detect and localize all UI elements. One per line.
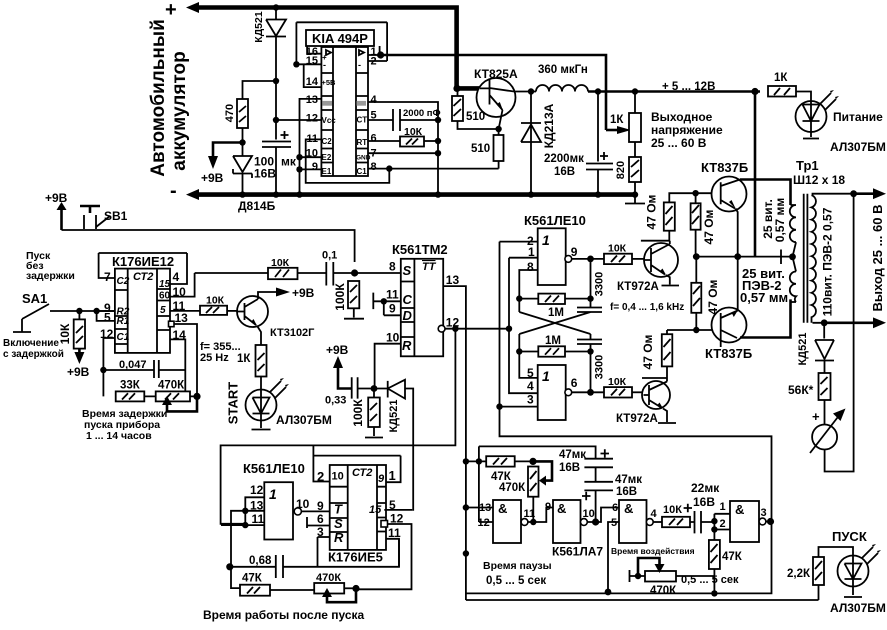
- svg-text:0,33: 0,33: [325, 395, 346, 407]
- svg-text:100К: 100К: [351, 399, 365, 427]
- svg-text:9: 9: [571, 245, 578, 259]
- svg-text:470: 470: [224, 104, 236, 122]
- svg-text:12: 12: [478, 517, 490, 529]
- svg-text:3: 3: [527, 393, 534, 407]
- svg-text:+9В: +9В: [326, 343, 349, 357]
- svg-text:КТ972А: КТ972А: [616, 413, 658, 425]
- svg-text:16В: 16В: [559, 462, 580, 474]
- svg-text:110вит. ПЭВ-2 0,57: 110вит. ПЭВ-2 0,57: [821, 207, 835, 316]
- svg-text:0,5 ... 5 сек: 0,5 ... 5 сек: [486, 575, 546, 587]
- svg-text:К176ИЕ12: К176ИЕ12: [112, 254, 174, 269]
- svg-text:9: 9: [312, 161, 318, 173]
- svg-text:25 Hz: 25 Hz: [200, 352, 229, 364]
- svg-text:1: 1: [542, 232, 550, 248]
- svg-text:1: 1: [542, 368, 550, 384]
- svg-text:2: 2: [720, 518, 726, 530]
- svg-text:47 Ом: 47 Ом: [645, 194, 659, 229]
- svg-text:GND: GND: [356, 155, 371, 162]
- svg-text:12: 12: [250, 483, 264, 497]
- svg-text:33К: 33К: [120, 380, 141, 392]
- svg-text:S: S: [403, 263, 412, 278]
- svg-text:3300: 3300: [593, 355, 605, 379]
- svg-text:задержки: задержки: [26, 270, 75, 282]
- svg-text:S: S: [334, 516, 343, 531]
- svg-text:5: 5: [611, 517, 617, 529]
- svg-text:Тр1: Тр1: [796, 158, 819, 173]
- svg-text:13: 13: [306, 94, 318, 106]
- svg-text:12: 12: [306, 113, 318, 125]
- svg-text:6: 6: [371, 133, 377, 145]
- svg-text:510: 510: [471, 143, 490, 155]
- svg-text:Включение: Включение: [3, 338, 59, 349]
- svg-text:+9В: +9В: [45, 191, 68, 205]
- svg-text:C: C: [403, 292, 413, 307]
- svg-text:АЛ307БМ: АЛ307БМ: [830, 140, 886, 154]
- svg-text:360 мкГн: 360 мкГн: [538, 64, 588, 76]
- svg-text:аккумулятор: аккумулятор: [169, 51, 190, 170]
- svg-text:10: 10: [386, 331, 400, 345]
- svg-text:16В: 16В: [254, 167, 276, 181]
- svg-text:100К: 100К: [333, 283, 347, 311]
- svg-text:13: 13: [446, 273, 460, 287]
- svg-text:Время паузы: Время паузы: [483, 560, 552, 572]
- svg-text:C1: C1: [357, 167, 368, 176]
- svg-text:2000 пФ: 2000 пФ: [403, 108, 441, 119]
- svg-text:Vcc: Vcc: [322, 116, 337, 125]
- svg-text:1: 1: [269, 486, 277, 502]
- svg-text:10К: 10К: [608, 376, 627, 388]
- svg-text:10: 10: [332, 470, 344, 482]
- svg-text:КД521: КД521: [388, 400, 400, 433]
- svg-text:-: -: [358, 60, 361, 70]
- svg-text:4: 4: [527, 379, 534, 393]
- svg-text:0,57 мм: 0,57 мм: [740, 290, 788, 305]
- svg-text:Выходное: Выходное: [651, 110, 713, 124]
- svg-text:1: 1: [720, 501, 726, 513]
- svg-text:Т: Т: [334, 502, 343, 517]
- svg-text:470К: 470К: [499, 482, 526, 494]
- svg-text:11: 11: [524, 508, 536, 520]
- svg-text:К561ЛЕ10: К561ЛЕ10: [243, 461, 305, 476]
- svg-text:&: &: [735, 502, 744, 517]
- svg-text:11: 11: [252, 512, 265, 526]
- svg-text:E1: E1: [322, 167, 332, 176]
- svg-text:56К*: 56К*: [788, 383, 814, 397]
- svg-text:47 Ом: 47 Ом: [641, 334, 655, 369]
- svg-text:2200мк: 2200мк: [544, 153, 584, 165]
- svg-text:7: 7: [104, 270, 111, 284]
- svg-text:4: 4: [651, 508, 658, 520]
- svg-text:+5B: +5B: [322, 78, 337, 87]
- svg-text:0,57 мм: 0,57 мм: [773, 198, 787, 243]
- svg-text:+9В: +9В: [67, 365, 90, 379]
- svg-text:10: 10: [296, 497, 310, 511]
- svg-text:-: -: [323, 60, 326, 70]
- svg-text:D: D: [403, 308, 413, 323]
- svg-text:Автомобильный: Автомобильный: [148, 19, 169, 177]
- svg-text:-: -: [170, 180, 177, 202]
- svg-text:К561ЛЕ10: К561ЛЕ10: [524, 213, 586, 228]
- svg-text:К561ЛА7: К561ЛА7: [552, 545, 603, 559]
- svg-text:4: 4: [173, 270, 180, 284]
- svg-text:Выход 25 ... 60 В: Выход 25 ... 60 В: [870, 204, 885, 311]
- svg-text:1М: 1М: [545, 335, 561, 347]
- svg-text:8: 8: [371, 161, 377, 173]
- svg-text:16В: 16В: [554, 166, 575, 178]
- svg-text:КД521: КД521: [253, 11, 265, 43]
- svg-text:8: 8: [527, 260, 534, 274]
- svg-text:СТ2: СТ2: [352, 467, 372, 479]
- svg-text:1К: 1К: [237, 353, 251, 365]
- svg-text:C2: C2: [117, 276, 130, 287]
- svg-text:6: 6: [317, 512, 324, 526]
- svg-text:C1: C1: [117, 332, 130, 343]
- svg-text:47К: 47К: [242, 573, 263, 585]
- svg-text:10К: 10К: [58, 323, 72, 344]
- svg-text:&: &: [557, 501, 566, 516]
- svg-text:5: 5: [160, 305, 166, 316]
- svg-text:SB1: SB1: [104, 209, 128, 223]
- svg-text:КТ972А: КТ972А: [617, 281, 659, 293]
- svg-text:9: 9: [317, 499, 324, 513]
- svg-text:10К: 10К: [271, 257, 290, 269]
- svg-text:510: 510: [466, 111, 485, 123]
- svg-text:CT: CT: [357, 116, 368, 125]
- svg-text:СТ2: СТ2: [133, 271, 153, 283]
- svg-text:10К: 10К: [663, 504, 682, 516]
- svg-text:+: +: [165, 0, 177, 21]
- svg-text:+: +: [812, 409, 820, 424]
- svg-text:2,2К: 2,2К: [787, 568, 811, 580]
- svg-text:6: 6: [571, 376, 578, 390]
- svg-text:16В: 16В: [693, 495, 715, 509]
- svg-text:470К: 470К: [158, 380, 185, 392]
- svg-text:10К: 10К: [608, 243, 627, 255]
- svg-text:+9В: +9В: [292, 286, 315, 300]
- svg-text:АЛ307БМ: АЛ307БМ: [830, 601, 886, 615]
- svg-text:К176ИЕ5: К176ИЕ5: [328, 550, 383, 565]
- svg-text:470К: 470К: [316, 572, 341, 584]
- svg-text:15: 15: [159, 279, 171, 290]
- svg-text:1К: 1К: [610, 114, 624, 126]
- svg-text:Питание: Питание: [833, 110, 883, 124]
- svg-text:470К: 470К: [650, 585, 677, 597]
- svg-text:0,047: 0,047: [119, 359, 147, 371]
- svg-text:напряжение: напряжение: [651, 123, 723, 137]
- svg-text:Время воздействия: Время воздействия: [611, 546, 695, 556]
- svg-text:АЛ307БМ: АЛ307БМ: [276, 413, 332, 427]
- svg-text:25 ... 60 В: 25 ... 60 В: [651, 136, 707, 150]
- svg-text:КД521: КД521: [797, 333, 809, 366]
- svg-text:47мк: 47мк: [615, 474, 642, 486]
- svg-text:1К: 1К: [774, 72, 788, 84]
- svg-text:47К: 47К: [722, 551, 743, 563]
- svg-text:9: 9: [545, 501, 551, 513]
- svg-text:ПУСК: ПУСК: [832, 529, 867, 544]
- svg-text:КТ3102Г: КТ3102Г: [270, 327, 315, 339]
- svg-text:47мк: 47мк: [559, 449, 586, 461]
- svg-text:3: 3: [761, 507, 767, 519]
- svg-text:47 Ом: 47 Ом: [702, 209, 716, 244]
- svg-text:5: 5: [104, 311, 111, 325]
- svg-text:КТ837Б: КТ837Б: [705, 346, 752, 361]
- svg-text:0,1: 0,1: [322, 250, 337, 262]
- svg-text:SA1: SA1: [22, 291, 47, 306]
- svg-text:15: 15: [369, 504, 382, 516]
- svg-text:START: START: [225, 382, 240, 424]
- svg-text:1 ... 14 часов: 1 ... 14 часов: [86, 430, 152, 442]
- svg-text:с задержкой: с задержкой: [3, 349, 64, 360]
- svg-text:Время работы после пуска: Время работы после пуска: [203, 608, 365, 622]
- svg-text:+9В: +9В: [201, 171, 224, 185]
- svg-text:60: 60: [159, 291, 171, 302]
- svg-text:R1: R1: [117, 316, 130, 327]
- svg-text:мк: мк: [281, 155, 297, 169]
- svg-text:f= 0,4 ... 1,6 kHz: f= 0,4 ... 1,6 kHz: [610, 302, 684, 313]
- svg-text:2: 2: [317, 469, 324, 484]
- svg-text:0,68: 0,68: [249, 555, 272, 567]
- svg-text:8: 8: [389, 260, 396, 274]
- svg-text:3300: 3300: [593, 272, 605, 296]
- svg-text:Ш12 x 18: Ш12 x 18: [793, 173, 845, 187]
- svg-text:RT: RT: [357, 138, 368, 147]
- svg-text:R: R: [334, 530, 344, 545]
- svg-text:4: 4: [371, 94, 378, 106]
- svg-text:1М: 1М: [548, 307, 564, 319]
- svg-text:9: 9: [378, 473, 385, 485]
- svg-text:13: 13: [175, 311, 189, 325]
- svg-text:10К: 10К: [404, 126, 423, 138]
- svg-text:1: 1: [389, 468, 396, 483]
- svg-text:E2: E2: [322, 153, 332, 162]
- svg-text:10: 10: [583, 508, 595, 520]
- svg-text:47 Ом: 47 Ом: [706, 279, 720, 314]
- svg-text:КТ837Б: КТ837Б: [701, 160, 748, 175]
- svg-text:16В: 16В: [616, 486, 637, 498]
- svg-text:R: R: [402, 338, 412, 353]
- svg-text:&: &: [624, 501, 633, 516]
- svg-text:+ 5 ... 12В: + 5 ... 12В: [662, 81, 715, 93]
- svg-text:22мк: 22мк: [691, 481, 720, 495]
- svg-text:11: 11: [386, 288, 399, 302]
- svg-text:10К: 10К: [206, 294, 225, 306]
- svg-text:TT: TT: [422, 261, 437, 273]
- svg-text:&: &: [498, 501, 507, 516]
- svg-text:Д814Б: Д814Б: [238, 199, 276, 213]
- svg-text:К561ТМ2: К561ТМ2: [392, 242, 448, 257]
- svg-text:KIA 494P: KIA 494P: [312, 31, 368, 46]
- svg-text:КД213А: КД213А: [542, 103, 556, 148]
- svg-text:820: 820: [615, 161, 627, 179]
- svg-text:КТ825А: КТ825А: [474, 67, 518, 81]
- svg-text:C2: C2: [322, 137, 333, 146]
- svg-text:6: 6: [612, 502, 618, 514]
- svg-text:9: 9: [389, 302, 396, 316]
